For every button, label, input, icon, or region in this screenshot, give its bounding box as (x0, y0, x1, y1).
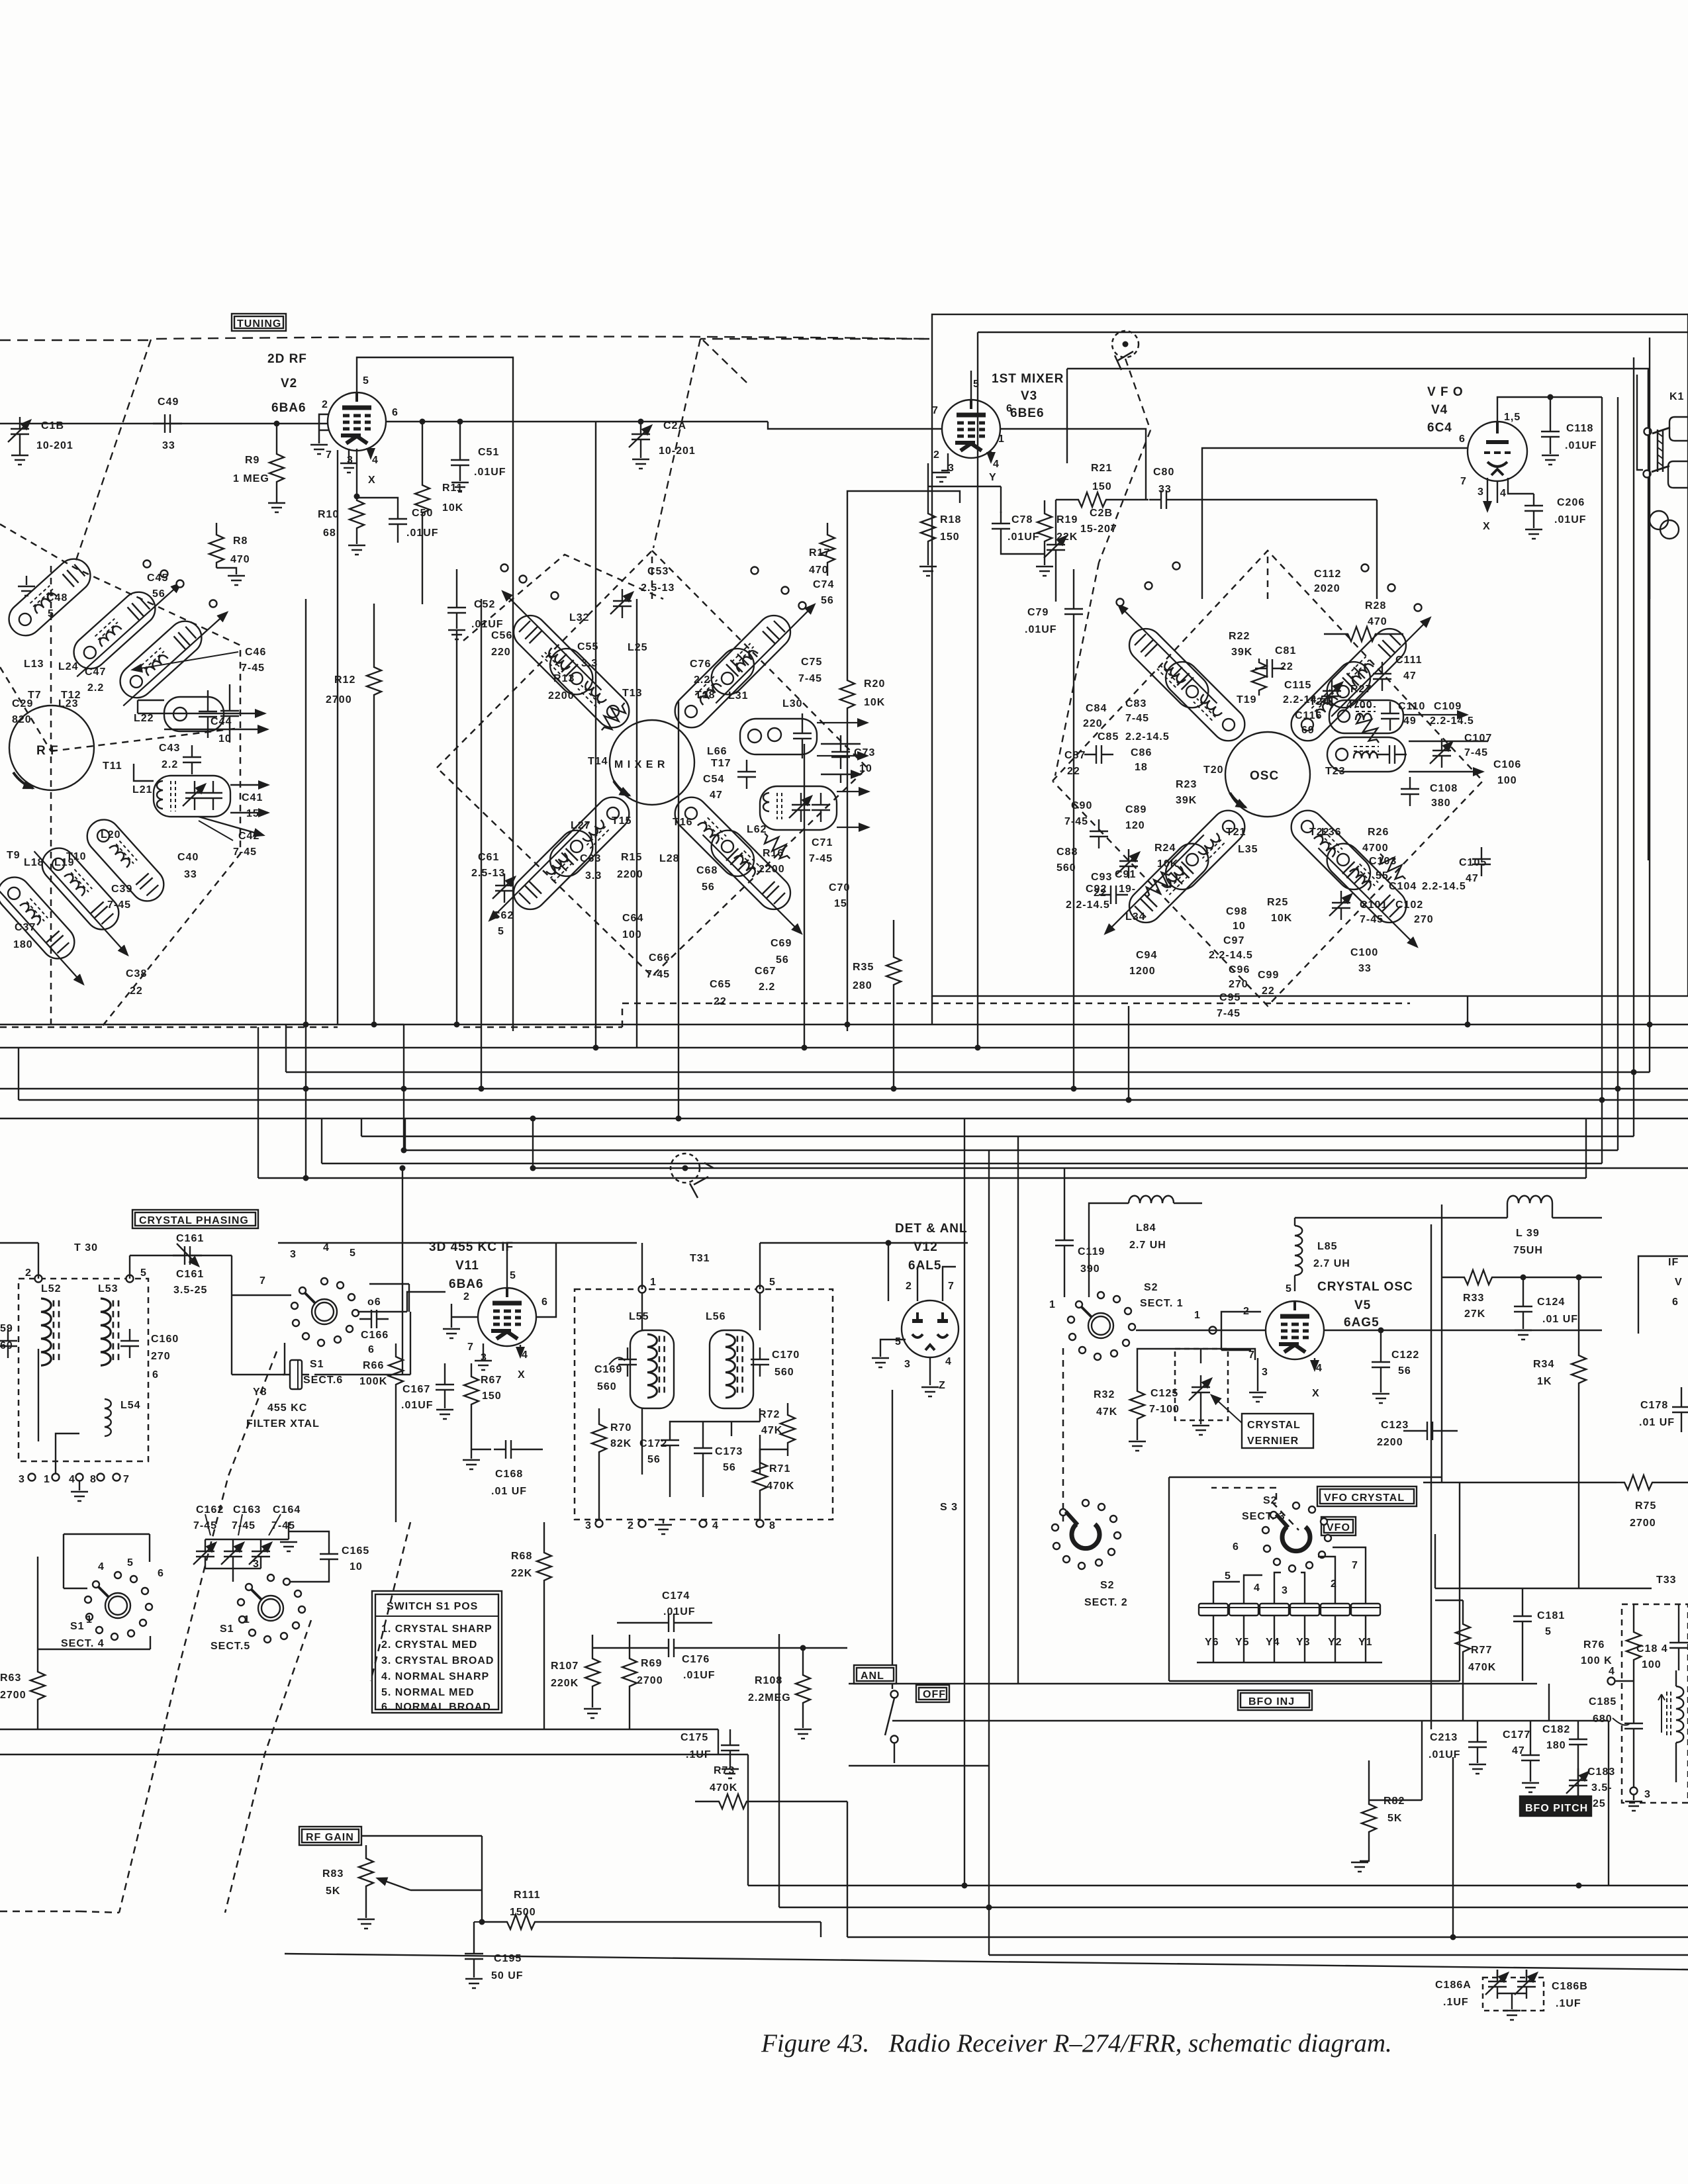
svg-text:19-: 19- (1119, 884, 1136, 895)
capacitor C73 (821, 735, 875, 783)
capacitor C124 .01UF (1514, 1277, 1578, 1340)
cathode ground V3 (941, 453, 948, 471)
svg-text:1: 1 (44, 1474, 50, 1485)
svg-text:C98: C98 (1226, 906, 1247, 917)
svg-text:6BE6: 6BE6 (1010, 406, 1045, 420)
svg-text:R32: R32 (1094, 1389, 1115, 1400)
svg-text:15: 15 (834, 898, 847, 909)
svg-text:C161: C161 (176, 1233, 204, 1244)
svg-text:2.7 UH: 2.7 UH (1129, 1240, 1166, 1251)
svg-text:V F O: V F O (1427, 385, 1464, 399)
svg-text:5: 5 (48, 608, 54, 619)
bottom busses right (748, 1754, 1688, 1886)
coil unit osc E upper (1329, 700, 1403, 733)
svg-text:L 39: L 39 (1516, 1228, 1540, 1239)
svg-text:7-45: 7-45 (1064, 816, 1088, 827)
coil unit L29 east (760, 786, 837, 830)
resistor R63 2700 (0, 1649, 45, 1729)
svg-text:2.2-14.5: 2.2-14.5 (1422, 881, 1466, 892)
coil T33 secondary (1658, 1670, 1683, 1782)
svg-text:7: 7 (932, 405, 939, 416)
coil unit osc NE 1 (1313, 600, 1436, 722)
svg-text:380: 380 (1431, 797, 1451, 809)
svg-text:2700: 2700 (326, 694, 352, 705)
resistor R69 2700 (622, 1635, 663, 1729)
gang coupling circle bus (671, 1154, 714, 1198)
svg-text:C104: C104 (1389, 881, 1417, 892)
dashed gang lines lower (0, 1351, 410, 1913)
svg-text:R17: R17 (809, 547, 830, 559)
svg-text:220K: 220K (551, 1678, 579, 1689)
svg-text:R16: R16 (763, 848, 784, 859)
svg-text:3: 3 (1644, 1789, 1651, 1800)
BFO PITCH label (1520, 1796, 1591, 1816)
svg-text:22K: 22K (1056, 531, 1078, 543)
gang dashed drop mixer (653, 339, 748, 548)
svg-text:5. NORMAL MED: 5. NORMAL MED (381, 1687, 475, 1698)
resistor R73 470K (695, 1765, 847, 1809)
capacitor C52 .01UF (447, 569, 504, 639)
svg-text:.01UF: .01UF (1554, 514, 1587, 525)
trimmer C125 7-100 (1149, 1349, 1228, 1435)
svg-text:4: 4 (522, 1349, 528, 1361)
tube V5 6AG5 (1136, 1280, 1413, 1402)
svg-text:R F: R F (36, 744, 59, 758)
svg-text:2.2MEG: 2.2MEG (748, 1692, 791, 1704)
resistor R111 1500 (479, 1889, 821, 1937)
svg-text:2: 2 (906, 1281, 912, 1292)
vertical drop e (481, 599, 482, 1089)
svg-text:IF: IF (1668, 1257, 1679, 1268)
capacitor C54 47 (703, 760, 756, 801)
wire arm arrows L22 (138, 700, 265, 713)
vertical drop p (1201, 563, 1203, 599)
coil L55 (629, 1311, 674, 1408)
vertical drop n (1073, 646, 1074, 1089)
svg-text:5: 5 (769, 1277, 776, 1288)
switch S2 SECT.2 (1052, 1500, 1128, 1608)
svg-text:C81: C81 (1275, 645, 1296, 657)
svg-text:33: 33 (1358, 963, 1372, 974)
wire V3 plate out (1000, 429, 1146, 500)
svg-text:5: 5 (1545, 1626, 1552, 1637)
svg-text:100K: 100K (359, 1376, 387, 1387)
svg-text:270: 270 (1414, 914, 1434, 925)
svg-text:C169: C169 (594, 1364, 622, 1375)
capacitor C166 6 (359, 1310, 389, 1355)
svg-text:R75: R75 (1635, 1500, 1656, 1512)
svg-text:C75: C75 (801, 657, 822, 668)
svg-text:1: 1 (1049, 1299, 1056, 1310)
bus line 9 right (322, 397, 1602, 1163)
pin4 arrow (990, 451, 992, 462)
svg-text:5: 5 (350, 1248, 356, 1259)
svg-text:3.5-25: 3.5-25 (173, 1285, 207, 1296)
svg-text:T33: T33 (1656, 1574, 1677, 1586)
svg-text:470K: 470K (767, 1480, 794, 1492)
capacitor C165 10 (289, 1531, 369, 1582)
svg-text:C172: C172 (639, 1438, 667, 1449)
svg-text:R24: R24 (1154, 842, 1176, 854)
svg-text:C1B: C1B (41, 420, 64, 432)
VFO CRYSTAL label (1317, 1486, 1417, 1506)
resistor R18 150 (919, 500, 961, 576)
capacitor C170 560 (751, 1347, 800, 1378)
svg-text:.01UF: .01UF (474, 467, 506, 478)
svg-text:8: 8 (90, 1474, 97, 1485)
svg-text:R63: R63 (0, 1672, 21, 1684)
svg-text:4: 4 (945, 1356, 952, 1367)
svg-text:K1: K1 (1669, 391, 1684, 402)
svg-text:C39: C39 (111, 884, 132, 895)
svg-text:47K: 47K (1096, 1406, 1117, 1418)
capacitor C195 50UF (465, 1922, 524, 1988)
svg-text:C49: C49 (158, 396, 179, 408)
resistor R71 470K (753, 1449, 794, 1520)
svg-text:VFO CRYSTAL: VFO CRYSTAL (1324, 1492, 1405, 1504)
tube V12 6AL5 (872, 1222, 968, 1396)
svg-text:C2A: C2A (663, 420, 686, 432)
svg-text:C182: C182 (1542, 1724, 1570, 1735)
gang dashed drop osc (700, 338, 929, 340)
svg-text:R83: R83 (322, 1868, 344, 1880)
svg-text:5: 5 (973, 379, 980, 390)
svg-text:C42: C42 (238, 831, 259, 842)
svg-text:C37: C37 (15, 922, 36, 933)
svg-text:10K: 10K (442, 502, 463, 514)
svg-text:C67: C67 (755, 966, 776, 977)
wire arm arrows L21 (134, 764, 268, 785)
trimmer C61 (492, 874, 515, 903)
VFO inner box (1067, 369, 1648, 860)
resistor R82 5K (1351, 1721, 1422, 1872)
wire plate line V2 to mixer (595, 422, 596, 1048)
svg-text:SECT. 3: SECT. 3 (1242, 1511, 1286, 1522)
svg-text:Y4: Y4 (1266, 1637, 1280, 1648)
switch S2 SECT.3 (1225, 1495, 1358, 1596)
svg-text:CRYSTAL PHASING: CRYSTAL PHASING (139, 1215, 249, 1226)
svg-text:R10: R10 (318, 509, 339, 520)
svg-text:C124: C124 (1537, 1297, 1565, 1308)
bus line 10 (258, 1027, 1586, 1178)
svg-text:R73: R73 (714, 1765, 735, 1776)
svg-text:C115: C115 (1284, 680, 1311, 691)
svg-text:V: V (1675, 1277, 1683, 1288)
svg-text:4: 4 (98, 1561, 105, 1572)
svg-text:R77: R77 (1471, 1645, 1492, 1656)
capacitor C168 .01UF (463, 1440, 543, 1497)
coil L39 75UH (1507, 1196, 1602, 1256)
terminal 2 (35, 1275, 42, 1283)
svg-text:C109: C109 (1434, 701, 1462, 712)
svg-text:R66: R66 (363, 1360, 384, 1371)
svg-text:1: 1 (650, 1277, 657, 1288)
relay K1 (1637, 371, 1688, 599)
svg-text:680: 680 (1593, 1713, 1613, 1725)
svg-text:60: 60 (0, 1340, 13, 1351)
svg-text:R111: R111 (514, 1889, 540, 1901)
trimmers C162 C163 C164 (193, 1504, 301, 1582)
svg-text:2200: 2200 (617, 869, 643, 880)
svg-text:59: 59 (0, 1323, 13, 1334)
svg-text:RF GAIN: RF GAIN (306, 1832, 354, 1843)
svg-text:7-45: 7-45 (1464, 747, 1488, 758)
bus line 5 (0, 1118, 1688, 1119)
svg-text:7-45: 7-45 (271, 1520, 295, 1531)
coil unit L24 arm (60, 564, 185, 682)
VFO V4 stage (1202, 385, 1602, 563)
svg-text:5K: 5K (1387, 1813, 1402, 1824)
svg-text:R23: R23 (1176, 779, 1197, 790)
svg-text:X: X (1312, 1388, 1320, 1399)
svg-text:22: 22 (714, 996, 727, 1007)
svg-text:T14: T14 (588, 756, 608, 767)
svg-text:X: X (1483, 521, 1491, 532)
svg-text:68: 68 (323, 527, 336, 539)
svg-text:C181: C181 (1537, 1610, 1565, 1621)
svg-text:7-45: 7-45 (646, 969, 670, 980)
terminal posts mixer NW (501, 565, 508, 572)
coil L52 (41, 1283, 62, 1365)
resistor R67 150 (464, 1363, 502, 1449)
svg-text:SECT. 2: SECT. 2 (1084, 1597, 1128, 1608)
svg-text:C168: C168 (495, 1469, 523, 1480)
svg-text:3: 3 (585, 1520, 592, 1531)
capacitor C167 .01UF (401, 1363, 454, 1419)
switch S1 SECT.6 (259, 1242, 381, 1346)
svg-text:2.2-14.5: 2.2-14.5 (1066, 899, 1110, 911)
tuning gang dashed line (0, 337, 929, 341)
capacitor C160 270 (120, 1329, 179, 1381)
svg-text:470: 470 (1368, 616, 1387, 627)
vertical drop s (1497, 481, 1498, 503)
svg-text:7-45: 7-45 (798, 673, 822, 684)
coil unit osc NE 2 (1284, 655, 1377, 748)
resistor R20 10K (840, 491, 960, 1031)
svg-text:L21: L21 (132, 784, 153, 796)
terminal posts mixer NE (751, 567, 759, 574)
svg-text:o6: o6 (367, 1297, 381, 1308)
svg-text:C54: C54 (703, 774, 724, 785)
transformer T31 dashed box (575, 1289, 833, 1520)
svg-text:C84: C84 (1086, 703, 1107, 714)
svg-text:R19: R19 (1056, 514, 1078, 525)
resistor R75 2700 (1617, 1475, 1688, 1529)
svg-text:7-45: 7-45 (1360, 914, 1383, 925)
capacitor C44 (211, 684, 239, 745)
trimmer C183 3.5-25 (1566, 1766, 1615, 1809)
svg-text:33: 33 (184, 869, 197, 880)
svg-text:C86: C86 (1131, 747, 1152, 758)
coil unit L20 arm (80, 813, 170, 907)
svg-text:V5: V5 (1354, 1298, 1371, 1312)
coil unit mixer SW 2 (543, 790, 636, 883)
vertical drop d (456, 630, 457, 1024)
capacitor C43 (159, 743, 201, 774)
trimmer C107 (1430, 739, 1452, 768)
vertical drop o (1128, 1006, 1129, 1100)
resistor R22 39K diag (1252, 659, 1266, 696)
coil L84 2.7UH (1089, 1196, 1202, 1297)
svg-text:R20: R20 (864, 678, 885, 690)
trimmer C28 15-207 (1044, 500, 1117, 602)
svg-text:R9: R9 (245, 455, 259, 466)
svg-text:33: 33 (1158, 484, 1172, 495)
svg-text:10K: 10K (864, 697, 885, 708)
transformer T30 dashed box (19, 1279, 148, 1461)
terminal posts RF NE (144, 561, 151, 568)
resistor R76 100K (1633, 1604, 1634, 1628)
svg-text:X: X (518, 1369, 526, 1381)
svg-text:4: 4 (1316, 1363, 1323, 1374)
svg-text:C118: C118 (1566, 423, 1593, 434)
svg-text:7: 7 (326, 449, 332, 461)
svg-text:.01UF: .01UF (1025, 624, 1057, 635)
svg-text:C125: C125 (1150, 1388, 1178, 1399)
svg-text:R33: R33 (1463, 1293, 1484, 1304)
svg-text:R72: R72 (759, 1409, 780, 1420)
svg-text:5: 5 (127, 1557, 134, 1569)
coil unit mixer NE 1 (698, 586, 820, 709)
svg-text:2700: 2700 (1630, 1518, 1656, 1529)
svg-text:56: 56 (776, 954, 789, 966)
svg-text:C96: C96 (1229, 964, 1250, 976)
svg-text:C100: C100 (1350, 947, 1378, 958)
svg-text:C55: C55 (577, 641, 598, 653)
svg-text:CRYSTAL: CRYSTAL (1247, 1420, 1301, 1431)
svg-text:C2B: C2B (1090, 508, 1113, 519)
resistor R28 470 (1324, 600, 1403, 641)
svg-text:270: 270 (151, 1351, 171, 1362)
svg-text:C178: C178 (1640, 1400, 1668, 1411)
svg-text:455 KC: 455 KC (267, 1402, 307, 1414)
svg-text:3: 3 (1282, 1585, 1288, 1596)
resistor R12 2700 (326, 604, 381, 1024)
svg-text:OFF: OFF (923, 1689, 946, 1700)
vertical drop g (636, 599, 637, 1048)
coil unit mixer NW 1 (485, 586, 607, 709)
svg-text:L24: L24 (58, 661, 79, 672)
svg-text:L34: L34 (1125, 911, 1146, 923)
bus line 1 (0, 1024, 1688, 1025)
svg-text:C51: C51 (478, 447, 499, 458)
capacitor C122 56 (1372, 1328, 1419, 1404)
svg-text:C29: C29 (12, 698, 33, 709)
capacitor C108 (1401, 777, 1419, 806)
svg-text:R8: R8 (233, 535, 248, 547)
trimmer C115 (1320, 679, 1342, 708)
svg-text:C123: C123 (1381, 1420, 1409, 1431)
wiring channel (0, 338, 1688, 1375)
coil unit osc SE 1 (1313, 830, 1436, 952)
svg-text:10-201: 10-201 (659, 445, 696, 457)
svg-text:C213: C213 (1430, 1732, 1458, 1743)
coil unit osc E (1327, 737, 1407, 772)
wires T31 (642, 1243, 888, 1475)
coil unit L22 (164, 690, 224, 738)
bus line 8 right (405, 397, 1618, 1150)
svg-text:C176: C176 (682, 1654, 710, 1665)
svg-text:SWITCH S1 POS: SWITCH S1 POS (387, 1601, 478, 1612)
svg-text:C63: C63 (580, 853, 601, 864)
capacitor C80 33 (1110, 467, 1377, 509)
svg-text:FILTER XTAL: FILTER XTAL (246, 1418, 320, 1430)
svg-text:L30: L30 (782, 698, 803, 709)
svg-text:10: 10 (350, 1561, 363, 1572)
switch S3 (854, 1390, 958, 1763)
node junction at R9 (274, 421, 280, 427)
svg-text:47: 47 (1512, 1745, 1525, 1756)
T31 bottom pins (596, 1520, 603, 1527)
vertical drop l (931, 996, 933, 1024)
oscillator section outer box (932, 314, 1688, 996)
capacitor C41 (242, 792, 263, 819)
svg-text:220: 220 (491, 647, 511, 658)
svg-text:10K: 10K (1271, 913, 1292, 924)
svg-text:6: 6 (158, 1568, 164, 1579)
svg-text:2.2: 2.2 (759, 981, 775, 993)
svg-text:C89: C89 (1125, 804, 1147, 815)
svg-text:C183: C183 (1587, 1766, 1615, 1778)
svg-text:S1: S1 (310, 1359, 324, 1370)
resistor R13 2200 (596, 698, 630, 735)
svg-text:100 K: 100 K (1581, 1655, 1613, 1666)
svg-text:2: 2 (933, 449, 940, 461)
vertical drop a (305, 599, 306, 1178)
svg-text:1: 1 (1194, 1310, 1201, 1321)
svg-text:VERNIER: VERNIER (1247, 1435, 1299, 1447)
svg-text:S2: S2 (1100, 1580, 1115, 1591)
svg-text:1,5: 1,5 (1504, 412, 1521, 423)
svg-text:6BA6: 6BA6 (271, 401, 306, 415)
capacitor C51 .01UF (451, 419, 506, 492)
svg-text:3.3: 3.3 (581, 658, 598, 669)
svg-text:2: 2 (322, 399, 328, 410)
svg-text:27K: 27K (1464, 1308, 1485, 1320)
transformer T33 (1581, 1574, 1688, 1811)
svg-text:C186B: C186B (1552, 1981, 1588, 1992)
svg-text:47: 47 (1466, 873, 1479, 884)
resistor R33 27K (1442, 1270, 1526, 1320)
svg-text:R28: R28 (1365, 600, 1386, 612)
svg-text:C41: C41 (242, 792, 263, 803)
svg-text:L20: L20 (101, 829, 121, 841)
resistor R8 470 (209, 523, 250, 585)
svg-text:Z: Z (939, 1380, 946, 1391)
wires rf gain (361, 1836, 482, 1922)
capacitor C182 180 (1542, 1721, 1587, 1796)
trimmer C161 (130, 1233, 232, 1296)
1ST MIXER V3 stage (840, 371, 1377, 1031)
svg-text:C91: C91 (1115, 869, 1136, 880)
svg-text:25: 25 (1593, 1798, 1606, 1809)
svg-text:56: 56 (702, 882, 715, 893)
svg-text:R35: R35 (853, 962, 874, 973)
svg-text:2020: 2020 (1314, 583, 1340, 594)
crystal bank box (1169, 1477, 1460, 1681)
svg-text:6: 6 (1006, 403, 1013, 414)
svg-text:7: 7 (1248, 1349, 1255, 1361)
VFO label (1321, 1517, 1356, 1535)
switch rotor MIXER (610, 720, 694, 805)
svg-text:C119: C119 (1078, 1246, 1105, 1257)
svg-text:R13: R13 (553, 673, 575, 684)
svg-text:T11: T11 (103, 760, 122, 772)
svg-text:.01UF: .01UF (663, 1606, 696, 1617)
capacitor C185 680 (1615, 1681, 1634, 1711)
svg-text:7-100: 7-100 (1149, 1404, 1180, 1415)
svg-text:C45: C45 (147, 572, 168, 584)
